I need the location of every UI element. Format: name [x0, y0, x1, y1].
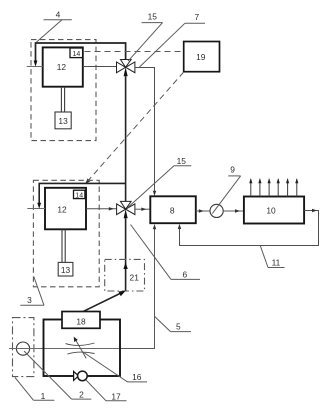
controller 19 [184, 42, 220, 72]
label 9 [212, 164, 240, 213]
heat exchanger cross (16) [66, 339, 95, 358]
svg-text:12: 12 [57, 205, 67, 215]
wire unit8 to pump 9 with arrow [196, 209, 210, 212]
pump 9 [210, 204, 223, 217]
label 17 [86, 380, 127, 401]
svg-text:21: 21 [130, 272, 140, 282]
label 16 [83, 352, 147, 382]
unit 12 (top) [43, 47, 83, 86]
return pipe valve2-top to unit 12 (lower) inlet [37, 183, 125, 208]
inlet wire (top subsystem) [27, 66, 43, 68]
bypass pipe 7 (valve1 right, down into unit 8 top) [135, 68, 156, 197]
svg-text:4: 4 [56, 10, 61, 20]
svg-text:16: 16 [132, 372, 142, 382]
svg-text:13: 13 [61, 265, 71, 275]
svg-text:5: 5 [176, 321, 181, 331]
svg-text:3: 3 [27, 295, 32, 305]
dashed enclosure 4 (top subsystem) [31, 40, 96, 141]
svg-text:19: 19 [196, 52, 206, 62]
pipe valve1 bottom to valve2 top [125, 76, 127, 201]
wire unit12(lower) to valve2 with arrow [86, 207, 117, 210]
sensor box 14 (top) [70, 48, 83, 58]
recirculation wire 11: unit10 out, around, into unit 8 bottom [178, 209, 319, 246]
svg-text:11: 11 [272, 257, 281, 267]
svg-text:12: 12 [57, 62, 67, 72]
return wire valve1-top to unit 12 inlet [34, 43, 126, 67]
exhaust arrows above unit 10 [251, 180, 297, 197]
svg-text:14: 14 [75, 192, 83, 199]
svg-text:17: 17 [111, 391, 121, 401]
dashed signal 14(top) to controller 19 [85, 51, 184, 53]
label 5 [155, 317, 191, 332]
label 3 [20, 277, 44, 306]
double link 12-13 (lower) [62, 229, 65, 262]
wire valve2 to unit 8 with arrow [135, 208, 150, 211]
box 13 (top) [55, 112, 71, 129]
pipe 5: heater out up into unit 8 bottom [120, 224, 156, 349]
three-way valve 15 (lower) [117, 201, 135, 218]
unit 8 [150, 196, 196, 223]
dash-dot box 21 [105, 259, 145, 291]
wire through sensor into heater [9, 348, 120, 350]
label 4 [36, 10, 72, 43]
three-way valve 15 (top) [117, 60, 135, 77]
dash-dot enclosure 1 (outdoor sensor) [13, 318, 34, 377]
svg-text:9: 9 [230, 164, 235, 174]
box 13 (lower) [58, 262, 73, 276]
label 15 (top valve) [128, 12, 163, 62]
label 2 [24, 351, 91, 400]
wire unit12 to valve1 [83, 66, 117, 68]
wire pump 9 to unit 10 with arrow [223, 209, 244, 212]
svg-text:15: 15 [177, 156, 187, 166]
svg-text:13: 13 [58, 116, 68, 126]
label 15 (lower valve) [128, 156, 192, 208]
pump 17 (circle with triangle) [74, 371, 88, 381]
svg-text:18: 18 [76, 316, 86, 326]
double link 12-13 (top) [61, 87, 64, 112]
unit 12 (lower) [45, 188, 86, 230]
label 7 [140, 12, 206, 67]
svg-text:1: 1 [41, 391, 46, 401]
sensor box 14 (lower) [74, 190, 85, 199]
dashed enclosure 3 (lower subsystem) [33, 180, 99, 286]
svg-text:2: 2 [79, 390, 84, 400]
sensor circle (component 2) [16, 342, 29, 355]
label 1 [15, 378, 54, 401]
svg-text:6: 6 [182, 269, 187, 279]
svg-text:7: 7 [194, 12, 199, 22]
svg-text:10: 10 [266, 205, 276, 215]
label 6 [131, 225, 201, 280]
svg-text:15: 15 [148, 12, 158, 22]
inlet wire (lower subsystem) [27, 208, 45, 210]
unit 10 [244, 197, 304, 224]
heated flow arrow from unit 18 up to valve2 pipe [82, 291, 126, 313]
unit 18 [62, 312, 100, 329]
svg-text:14: 14 [73, 51, 81, 58]
label 11 [260, 246, 284, 268]
pipe valve2 bottom down into box 21 [123, 218, 127, 291]
heater housing 16 [44, 320, 121, 377]
dashed signal 19 to sensor 14 (lower) [85, 72, 184, 184]
svg-text:8: 8 [170, 205, 175, 215]
